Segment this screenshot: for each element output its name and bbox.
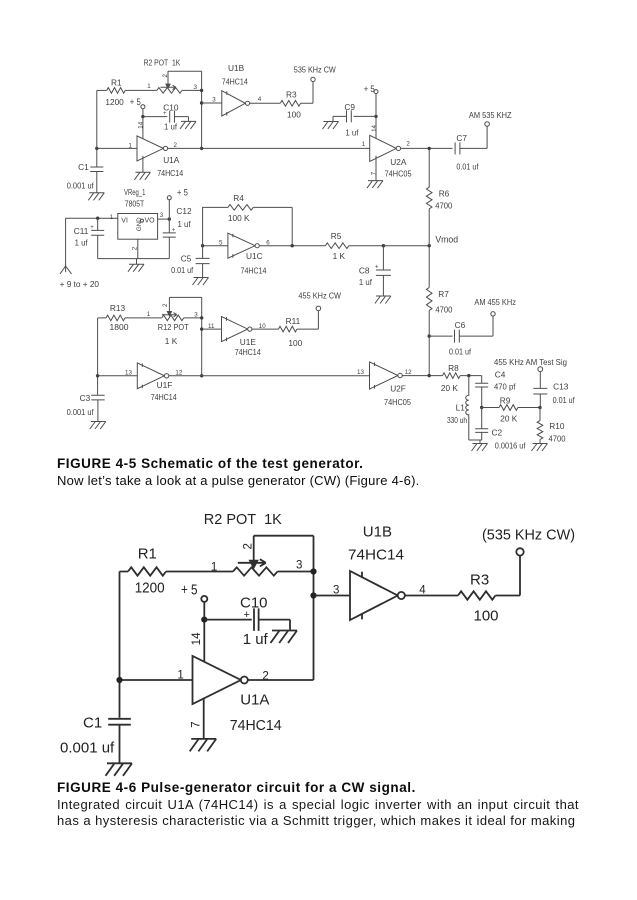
svg-text:R7: R7 (438, 289, 449, 299)
svg-text:Vmod: Vmod (435, 235, 458, 245)
svg-text:U2F: U2F (390, 384, 406, 394)
wire (158, 218, 170, 220)
junction (291, 244, 294, 247)
terminal (535 KHz CW) (482, 526, 575, 555)
wire (297, 311, 319, 329)
resistor R9 (482, 395, 540, 423)
svg-text:AM 455 KHz: AM 455 KHz (474, 297, 516, 307)
svg-text:R5: R5 (331, 231, 342, 241)
svg-text:R9: R9 (500, 395, 511, 405)
power +5 terminal (130, 97, 145, 109)
wire (254, 536, 314, 680)
svg-text:C11: C11 (74, 226, 89, 236)
svg-text:1: 1 (147, 83, 151, 90)
capacitor C11 (74, 218, 104, 258)
resistor R11 (279, 316, 303, 348)
svg-text:3: 3 (194, 84, 198, 91)
svg-text:U1A: U1A (163, 155, 180, 165)
junction (201, 617, 207, 623)
svg-text:1 K: 1 K (165, 336, 178, 346)
junction node Vmod (428, 244, 431, 247)
svg-text:1 uf: 1 uf (178, 219, 192, 229)
svg-text:100: 100 (474, 608, 499, 625)
wire (278, 571, 314, 573)
svg-text:1: 1 (110, 214, 114, 221)
wire U2A pin 7 (375, 156, 377, 181)
svg-text:C12: C12 (176, 206, 192, 216)
paragraph (57, 797, 579, 812)
svg-text:U1B: U1B (363, 524, 392, 541)
svg-text:470 pf: 470 pf (494, 382, 516, 392)
svg-text:12: 12 (175, 369, 182, 376)
svg-text:C1: C1 (78, 162, 89, 172)
svg-text:14: 14 (191, 632, 203, 645)
wire (314, 595, 351, 597)
wire U1A pin 14 (142, 109, 144, 141)
svg-text:2: 2 (174, 142, 178, 149)
ground (367, 181, 383, 189)
wire (119, 572, 121, 718)
wire (168, 147, 370, 149)
svg-text:1 uf: 1 uf (75, 237, 89, 247)
svg-text:3: 3 (160, 212, 164, 219)
svg-text:0.0016 uf: 0.0016 uf (495, 441, 526, 451)
resistor R13 (106, 303, 129, 332)
svg-text:2: 2 (162, 74, 169, 78)
svg-text:C2: C2 (492, 427, 503, 437)
svg-text:74HC14: 74HC14 (348, 546, 404, 563)
wire (405, 595, 458, 597)
resistor R3 (280, 89, 301, 119)
resistor R8 (441, 363, 460, 393)
ground (88, 193, 104, 201)
capacitor C7 (455, 126, 487, 171)
resistor R1 (105, 77, 125, 107)
junction (200, 316, 203, 319)
svg-text:12: 12 (405, 369, 412, 376)
wire feedback (203, 207, 293, 245)
resistor R3 (458, 572, 499, 625)
wire VReg pin 2 (137, 239, 139, 258)
svg-text:R2 POT 1K: R2 POT 1K (144, 58, 181, 68)
capacitor C6 (429, 316, 493, 357)
svg-text:+: + (90, 225, 94, 231)
svg-text:74HC14: 74HC14 (222, 76, 248, 86)
inverter U1E (222, 317, 262, 357)
svg-text:R8: R8 (448, 363, 459, 373)
wire (169, 375, 370, 377)
svg-text:U1B: U1B (228, 63, 245, 73)
potentiometer R2 (204, 511, 282, 576)
svg-text:1: 1 (362, 141, 366, 148)
svg-text:C5: C5 (181, 254, 192, 264)
wire (168, 71, 202, 148)
svg-text:U1C: U1C (246, 251, 263, 261)
junction (428, 147, 431, 150)
svg-text:C8: C8 (359, 266, 370, 276)
inductor L1 (447, 376, 469, 440)
wire (120, 571, 234, 573)
svg-text:R1: R1 (138, 546, 157, 563)
junction (310, 592, 316, 598)
resistor R6 (426, 148, 452, 245)
wire (98, 258, 170, 260)
wire (259, 245, 325, 247)
svg-text:13: 13 (125, 369, 132, 376)
inverter U2A (370, 135, 412, 178)
capacitor C3 (67, 393, 105, 422)
junction (467, 374, 470, 377)
inverter U1F (137, 363, 177, 402)
capacitor C9 (333, 102, 376, 138)
svg-text:U1F: U1F (157, 380, 173, 390)
svg-text:74HC05: 74HC05 (384, 397, 411, 407)
svg-text:0.01 uf: 0.01 uf (449, 347, 472, 357)
svg-text:4: 4 (258, 96, 262, 103)
svg-text:7: 7 (191, 721, 203, 727)
caption text (57, 473, 420, 488)
svg-text:1 uf: 1 uf (243, 631, 269, 648)
svg-text:+: + (244, 609, 250, 621)
wire (97, 89, 107, 91)
ground (180, 121, 196, 128)
inverter U1B (348, 524, 405, 620)
wire (97, 147, 137, 149)
svg-text:1 uf: 1 uf (359, 277, 373, 287)
svg-text:L1: L1 (456, 402, 466, 412)
svg-text:0.01 uf: 0.01 uf (553, 395, 576, 405)
capacitor C13 (533, 372, 575, 408)
svg-text:5: 5 (219, 239, 223, 246)
svg-text:74HC05: 74HC05 (385, 168, 412, 178)
capacitor C12 (163, 206, 192, 258)
wire (98, 375, 138, 377)
svg-text:1 K: 1 K (333, 251, 346, 261)
svg-text:1200: 1200 (105, 97, 124, 107)
wire U1A pin 14 (203, 602, 205, 662)
inverter U1A (137, 136, 184, 178)
svg-text:2: 2 (162, 303, 169, 307)
capacitor C8 (359, 246, 391, 296)
svg-text:VI: VI (121, 218, 128, 225)
junction (200, 101, 203, 104)
wire (169, 297, 201, 375)
svg-text:1: 1 (211, 562, 217, 574)
power +5 terminal (364, 84, 378, 94)
inverter U2F (370, 362, 412, 407)
svg-text:+ 5: + 5 (364, 84, 375, 94)
wire (182, 89, 202, 91)
svg-text:2: 2 (131, 246, 138, 250)
svg-text:R3: R3 (470, 572, 489, 589)
wire (402, 375, 442, 377)
svg-text:1 uf: 1 uf (164, 122, 178, 132)
svg-text:R11: R11 (286, 316, 301, 326)
wire (97, 318, 99, 395)
junction (200, 147, 203, 150)
svg-text:U1E: U1E (240, 337, 257, 347)
ground (193, 278, 209, 286)
ground (106, 763, 133, 776)
svg-text:0.01 uf: 0.01 uf (456, 162, 479, 172)
wire (248, 679, 314, 681)
svg-text:13: 13 (357, 369, 364, 376)
junction (200, 327, 203, 330)
capacitor C4 (475, 370, 516, 408)
svg-text:455 KHz AM Test Sig: 455 KHz AM Test Sig (494, 357, 567, 367)
capacitor C10 (143, 102, 189, 131)
svg-text:1: 1 (147, 311, 151, 318)
svg-text:74HC14: 74HC14 (230, 717, 282, 734)
wire (301, 82, 313, 104)
wire (401, 147, 453, 149)
svg-text:74HC14: 74HC14 (241, 265, 267, 275)
svg-text:C3: C3 (80, 393, 91, 403)
svg-text:R10: R10 (549, 421, 565, 431)
ground (323, 122, 339, 130)
svg-text:1800: 1800 (110, 322, 129, 332)
svg-text:C4: C4 (495, 370, 506, 380)
svg-text:R1: R1 (111, 77, 122, 87)
svg-text:+: + (163, 111, 167, 117)
wire (469, 440, 482, 444)
wire (66, 217, 118, 219)
junction (96, 374, 99, 377)
caption FIGURE 4-6 (57, 780, 416, 795)
terminal 535 KHz CW (294, 65, 336, 82)
svg-text:7: 7 (371, 171, 378, 175)
terminal 455 KHz CW (298, 291, 341, 311)
svg-text:3: 3 (212, 97, 216, 104)
regulator VReg_1 7805T (118, 187, 158, 239)
svg-text:0.01 uf: 0.01 uf (171, 265, 194, 275)
resistor R4 (228, 193, 253, 223)
wire (202, 102, 222, 104)
junction (116, 677, 122, 683)
ground (190, 739, 217, 752)
svg-text:0.001 uf: 0.001 uf (60, 739, 115, 756)
ground (134, 172, 150, 180)
svg-text:U1A: U1A (240, 691, 269, 708)
wire (125, 317, 162, 319)
wire (98, 317, 106, 319)
svg-text:14: 14 (371, 124, 378, 131)
svg-text:3: 3 (333, 585, 339, 597)
svg-text:2: 2 (262, 671, 268, 683)
junction (96, 217, 99, 220)
capacitor C2 (475, 408, 526, 451)
junction (95, 147, 98, 150)
capacitor C5 (171, 246, 210, 278)
svg-text:+: + (375, 264, 379, 270)
ground (472, 444, 488, 452)
svg-text:100: 100 (287, 110, 301, 120)
capacitor C10 (204, 595, 290, 649)
svg-text:+ 9 to + 20: + 9 to + 20 (60, 279, 100, 289)
wire (96, 90, 98, 166)
wire (125, 89, 157, 91)
svg-text:535 KHz CW: 535 KHz CW (294, 65, 336, 75)
svg-text:4: 4 (419, 584, 426, 596)
junction (200, 374, 203, 377)
wire (250, 102, 281, 104)
junction (200, 89, 203, 92)
svg-text:330 uh: 330 uh (447, 415, 467, 425)
wire (202, 328, 222, 330)
svg-text:7805T: 7805T (125, 198, 144, 208)
svg-text:0.001 uf: 0.001 uf (67, 180, 95, 190)
wire (460, 375, 482, 377)
inverter U1C (228, 233, 267, 275)
junction (480, 406, 483, 409)
ground (271, 631, 298, 644)
wire (495, 556, 520, 596)
ground (375, 296, 391, 304)
svg-text:100 K: 100 K (228, 213, 250, 223)
wire (65, 218, 67, 272)
svg-text:(535 KHz CW): (535 KHz CW) (482, 526, 575, 543)
junction (538, 406, 541, 409)
svg-text:455 KHz CW: 455 KHz CW (298, 291, 341, 301)
svg-text:1 uf: 1 uf (345, 127, 359, 137)
terminal AM 535 KHZ (469, 110, 512, 126)
junction (201, 244, 204, 247)
svg-text:U2A: U2A (390, 157, 407, 167)
wire (120, 679, 193, 681)
power +5 terminal (167, 188, 188, 220)
ground (532, 444, 548, 452)
wire (428, 336, 430, 376)
wire (184, 317, 202, 319)
svg-text:VReg_1: VReg_1 (124, 187, 146, 197)
svg-text:4700: 4700 (435, 201, 452, 211)
wire U1A pin 7 (142, 156, 144, 172)
power +5 terminal (181, 581, 207, 602)
inverter U1B (222, 63, 250, 116)
svg-text:R12 POT: R12 POT (158, 322, 189, 332)
svg-text:R4: R4 (233, 193, 244, 203)
svg-text:+ 5: + 5 (181, 581, 198, 598)
ground (128, 259, 144, 272)
svg-text:2: 2 (406, 141, 410, 148)
junction (374, 115, 377, 118)
svg-text:+ 5: + 5 (130, 97, 141, 107)
capacitor C1 (67, 162, 104, 193)
svg-text:C7: C7 (456, 133, 467, 143)
svg-text:R3: R3 (286, 89, 297, 99)
caption FIGURE 4-5 (57, 456, 363, 471)
junction (168, 217, 171, 220)
svg-text:11: 11 (208, 323, 215, 330)
svg-text:4700: 4700 (549, 434, 566, 444)
svg-text:2: 2 (242, 543, 254, 549)
wire (349, 245, 429, 247)
svg-text:C1: C1 (83, 715, 102, 732)
capacitor C1 (60, 715, 131, 764)
terminal AM 455 KHz (474, 297, 516, 316)
junction (428, 374, 431, 377)
potentiometer R12 (158, 297, 189, 346)
wire U2A pin 14 (375, 94, 377, 141)
svg-text:100: 100 (288, 338, 302, 348)
ground (90, 422, 106, 430)
svg-text:+: + (172, 228, 176, 234)
svg-text:3: 3 (296, 560, 302, 572)
junction (310, 568, 316, 574)
wire (203, 245, 228, 247)
svg-text:R6: R6 (439, 189, 450, 199)
svg-text:VO: VO (145, 218, 156, 225)
svg-text:20 K: 20 K (441, 383, 458, 393)
svg-text:4700: 4700 (435, 304, 452, 314)
svg-text:0.001 uf: 0.001 uf (67, 407, 95, 417)
resistor R1 (128, 546, 166, 597)
svg-text:+ 5: + 5 (177, 188, 188, 198)
svg-text:AM 535 KHZ: AM 535 KHZ (469, 110, 512, 120)
svg-text:R13: R13 (110, 303, 126, 313)
svg-text:1200: 1200 (135, 580, 165, 597)
potentiometer R2 (144, 58, 182, 94)
inverter U1A (193, 656, 282, 734)
svg-text:20 K: 20 K (500, 414, 517, 424)
junction (428, 334, 431, 337)
junction (382, 244, 385, 247)
svg-text:74HC14: 74HC14 (157, 168, 183, 178)
svg-text:C6: C6 (455, 320, 466, 330)
svg-text:14: 14 (138, 121, 145, 128)
svg-text:C9: C9 (344, 102, 355, 112)
wire U1A pin 7 (203, 698, 205, 739)
resistor R7 (426, 246, 452, 336)
resistor R10 (537, 408, 566, 444)
svg-text:GND: GND (136, 217, 143, 231)
svg-text:74HC14: 74HC14 (235, 347, 261, 357)
wire (252, 328, 279, 330)
svg-text:C13: C13 (553, 382, 569, 392)
svg-text:74HC14: 74HC14 (151, 392, 177, 402)
svg-text:R2 POT 1K: R2 POT 1K (204, 511, 282, 528)
terminal 455 KHz AM Test Sig (494, 357, 567, 372)
junction (141, 115, 144, 118)
resistor R5 (325, 231, 348, 261)
input terminal + 9 to + 20 (60, 266, 100, 289)
